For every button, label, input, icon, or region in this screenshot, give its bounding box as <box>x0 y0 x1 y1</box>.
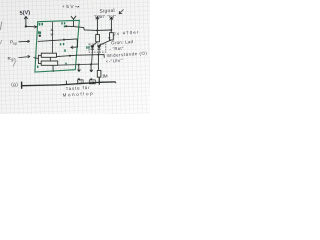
ground rail terminal bar <box>21 82 23 89</box>
node dot pin3 <box>65 25 67 27</box>
node dot C1 tap <box>78 64 80 66</box>
+5V arrow terminal <box>71 16 76 27</box>
svg-text:- "Rot": - "Rot" <box>109 46 124 52</box>
paper background <box>0 0 150 114</box>
stub arrow into C2 <box>90 78 92 80</box>
LED D1 <box>91 45 95 47</box>
svg-text:Pup: Pup <box>10 40 17 46</box>
dashed box around LEDs <box>89 44 106 52</box>
rail end hook <box>115 82 117 83</box>
node dot on W1 <box>63 39 65 41</box>
arrow Pin <box>19 40 30 42</box>
wire stub from reset pin <box>34 58 39 59</box>
node dot left <box>39 35 41 37</box>
LED leads to W3 <box>91 52 94 64</box>
resistor block Ra (internal) <box>41 53 56 57</box>
wire pin: trig horizontal (W1) <box>38 39 77 42</box>
pin label 1 (green, bottom-left) <box>37 66 39 68</box>
green mark 2x (left of box) <box>87 46 89 49</box>
node dot W2-a <box>96 29 98 31</box>
grid (slightly rotated like the photo) <box>0 0 170 131</box>
svg-text:Rgb.: Rgb. <box>8 56 18 62</box>
stray pencil mark <box>13 61 16 67</box>
svg-text:1M: 1M <box>102 73 108 78</box>
wire connector between blocks <box>49 57 51 61</box>
small mark before Grün line <box>108 37 110 39</box>
internal vertical line <box>51 22 53 53</box>
pin label 8 (green, top-left) <box>40 23 43 26</box>
label box C2 <box>89 80 95 84</box>
node dot C2 tap <box>90 63 92 65</box>
wire output pin 3 (W2) <box>66 26 112 30</box>
node 5V junction dot <box>25 25 27 27</box>
wire bracket feeding blocks <box>38 55 41 63</box>
resistor R3 1M drop <box>97 55 99 71</box>
svg-text:(g): (g) <box>11 82 18 87</box>
pin label 7 (green) <box>61 43 64 45</box>
wire 5V to IC pin 8 <box>26 25 37 27</box>
pin label 3 (green) <box>64 25 66 27</box>
capacitor C1 drop <box>78 65 81 72</box>
capacitor C2 drop <box>90 64 93 72</box>
wire W4 (pin from Rb to caps) <box>58 64 99 65</box>
pin label 4 (green, top-right) <box>62 22 65 24</box>
wire W3 (pins 2/6 to right) <box>57 55 105 58</box>
node dot W3 start <box>69 55 71 57</box>
ground rail <box>22 82 116 86</box>
paper edge mark top-left <box>0 22 2 31</box>
5V terminal arrow up <box>24 16 27 26</box>
arrowhead of hook <box>71 46 74 49</box>
IC box U1 (green outline) <box>35 20 79 72</box>
signal arrow up 2 <box>110 17 113 30</box>
pin label 5 (green, inside low) <box>65 63 67 65</box>
scribble top-right corner <box>119 10 124 14</box>
resistor block Rb (internal) <box>41 61 58 65</box>
wire hook down from W1 <box>71 39 78 48</box>
paper edge mark mid-left <box>0 40 2 44</box>
wire below Rb to pin 1 <box>52 65 54 72</box>
svg-text:5(V): 5(V) <box>19 10 30 17</box>
arrowhead into pin 8 <box>34 26 37 29</box>
LED D2 <box>97 45 101 47</box>
pin label 6 (green, left) <box>39 31 41 34</box>
internal tick marks <box>51 29 54 35</box>
resistor R2 (below W2 right) <box>110 30 112 33</box>
label box C1 <box>77 80 83 84</box>
svg-text:+5V↝: +5V↝ <box>62 4 80 10</box>
stub arrow into C1 <box>78 78 80 80</box>
arrow Res <box>19 55 31 57</box>
resistor R1 (below W2 left) <box>96 30 98 34</box>
svg-text:"grün": "grün" <box>94 14 106 19</box>
node dot W2-b <box>110 29 112 31</box>
node dot W3 at R3 <box>98 54 100 56</box>
signal arrow up 1 <box>96 17 99 30</box>
tick on rail <box>65 81 67 85</box>
pin label 2 (green) <box>64 49 66 51</box>
